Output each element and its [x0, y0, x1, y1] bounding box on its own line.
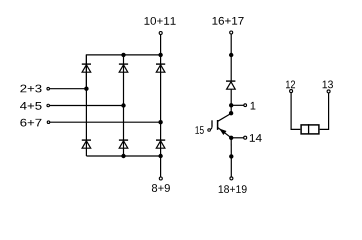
pin label 1 — [251, 102, 256, 110]
wire: terminal 2+3 to leg 1 — [50, 88, 87, 90]
wire: terminal 16+17 down to diode D7 — [230, 34, 232, 81]
junction: node on 16+17 feed — [229, 53, 233, 57]
junction: phase 6+7 / leg 3 — [158, 120, 162, 124]
wire: down to terminal 18+19 — [230, 156, 232, 176]
terminal 13 — [327, 90, 330, 93]
junction: top bus / leg 3 — [158, 53, 162, 57]
terminal 4+5 — [47, 104, 50, 107]
junction: collector node / terminal 1 — [229, 103, 233, 107]
terminal 2+3 — [47, 87, 50, 90]
pin label 4+5 — [20, 102, 42, 110]
thermistor R1 (temperature sensor) — [301, 124, 319, 134]
pin label 16+17 — [212, 17, 243, 25]
diode D4 (lower, leg 1) — [82, 140, 91, 148]
junction: bottom bus / leg 3 — [158, 154, 162, 158]
wire: terminal 12 to sensor — [291, 93, 300, 130]
terminal 8+9 — [159, 177, 162, 180]
junction: emitter node / terminal 14 — [229, 136, 233, 140]
pin label 12 — [286, 81, 295, 89]
diode D5 (lower, leg 2) — [119, 140, 128, 148]
wire: leg 2 vertical — [123, 55, 125, 156]
transistor Q1 (IGBT chopper) — [210, 113, 232, 137]
pin label 15 — [195, 126, 203, 134]
wire: D7 anode to collector node — [230, 89, 232, 113]
wire: terminal 13 to sensor — [320, 93, 329, 129]
junction: transistor collector node — [229, 111, 233, 115]
terminal 16+17 — [230, 31, 233, 34]
junction: phase 4+5 / leg 2 — [121, 103, 125, 107]
diode D3 (upper, leg 3) — [156, 64, 165, 72]
terminal 10+11 — [159, 32, 162, 35]
wire: bottom bus to terminal 8+9 — [160, 156, 162, 177]
junction: top bus / leg 2 — [121, 53, 125, 57]
diode D6 (lower, leg 3) — [156, 140, 165, 148]
wire: emitter node down — [230, 138, 232, 157]
pin label 10+11 — [144, 17, 175, 25]
terminal 1 — [244, 104, 247, 107]
pin label 2+3 — [20, 85, 41, 93]
wire: collector node to terminal 1 — [231, 104, 244, 106]
wire: leg 3 vertical — [160, 55, 162, 156]
pin label 13 — [323, 81, 333, 89]
terminal 6+7 — [47, 121, 50, 124]
terminal 18+19 — [230, 177, 233, 180]
junction: node on 18+19 line — [229, 154, 233, 158]
wire: top DC bus — [86, 55, 160, 89]
terminal 12 — [290, 90, 293, 93]
pin label 18+19 — [219, 185, 247, 193]
wire: bottom DC bus — [86, 155, 160, 157]
pin label 14 — [250, 134, 262, 142]
diode D7 (chopper branch) — [226, 81, 235, 89]
terminal 15 (gate) — [208, 129, 211, 132]
pin label 8+9 — [152, 184, 170, 192]
terminal 14 — [244, 136, 247, 139]
junction: phase 2+3 / leg 1 — [84, 87, 88, 91]
diode D2 (upper, leg 2) — [119, 64, 128, 72]
junction: bottom bus / leg 2 — [121, 154, 125, 158]
wire: terminal 4+5 to leg 2 — [50, 105, 124, 107]
pin label 6+7 — [20, 119, 41, 127]
wire: terminal 6+7 to leg 3 — [50, 121, 161, 123]
wire: leg 1 vertical — [85, 55, 87, 156]
wire: emitter node to terminal 14 — [231, 137, 243, 139]
diode D1 (upper, leg 1) — [82, 64, 91, 72]
wire: terminal 10+11 to top bus — [160, 35, 162, 55]
